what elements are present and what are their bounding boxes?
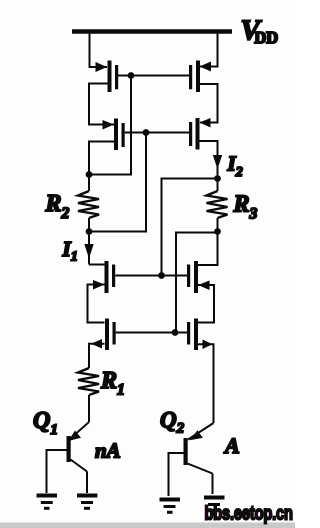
wire VDD to M2 source [200, 33, 218, 67]
wire M3 drain down [89, 142, 114, 175]
wire node A to R2 [88, 175, 90, 192]
wire node B to riser row2-gates [89, 133, 146, 232]
transistor Q2 (PNP, emitter area A) [184, 423, 214, 474]
wire gate bus row4 [116, 332, 187, 334]
VDD rail [72, 29, 232, 34]
wire M2 drain to M4 source [200, 84, 218, 123]
transistor M4 (second-row right PMOS) [189, 118, 211, 150]
wire M4 drain / I2 branch with current arrow [200, 141, 223, 179]
transistor M2 (top-right PMOS) [189, 61, 211, 93]
node C (R3 top) [214, 175, 221, 182]
transistor Q1 (PNP, emitter area nA) [67, 422, 90, 472]
wire Q1 collector to ground [86, 472, 88, 494]
wire I1 to M5 drain [89, 264, 105, 266]
ground (Q1 collector) [77, 496, 97, 509]
wire M6 source to M8 drain [198, 285, 214, 323]
wire riser row1-gates to node A [89, 76, 131, 175]
node row2 gate bus [143, 129, 150, 136]
node row3 gate bus [158, 272, 165, 279]
svg-text:bbs.eetop.cn: bbs.eetop.cn [205, 503, 293, 524]
wire M5 source to M7 drain [88, 285, 105, 323]
svg-text:R3: R3 [233, 192, 258, 223]
wire R3 to node D [217, 218, 219, 232]
ground (Q2 collector) [204, 498, 225, 511]
wire node D to M6 drain [198, 232, 218, 266]
node row4 gate bus [172, 329, 179, 336]
svg-text:Q2: Q2 [160, 408, 185, 437]
page edge band [0, 523, 295, 528]
wire gate bus row2 [125, 132, 189, 134]
wire Q1 base to ground [47, 450, 67, 493]
node D (R3 bottom) [214, 228, 221, 235]
svg-text:A: A [223, 433, 240, 458]
wire gate bus row3 [115, 275, 187, 277]
svg-text:Q1: Q1 [33, 408, 58, 438]
transistor M6 (third-row right NMOS) [187, 261, 210, 293]
resistor R3 [207, 191, 228, 218]
wire node C to R3 [217, 179, 219, 192]
transistor M8 (fourth-row right NMOS) [187, 319, 213, 351]
resistor R1 [78, 368, 99, 395]
ground (Q2 base) [160, 500, 181, 513]
wire node D to riser row4-gates [176, 233, 218, 333]
wire M1 drain to M3 source [89, 84, 114, 125]
svg-text:R2: R2 [45, 191, 70, 222]
wire Q2 collector to ground [212, 474, 214, 495]
node row1 gate bus [128, 72, 135, 79]
svg-text:I1: I1 [62, 237, 78, 265]
transistor M5 (third-row left NMOS) [93, 261, 115, 293]
wire I1 branch with current arrow [84, 232, 93, 265]
wire gate bus row1 [118, 75, 189, 77]
wire VDD to M1 source [90, 33, 108, 67]
transistor M3 (second-row left PMOS) [103, 119, 125, 151]
wire M8 source to Q2 emitter [198, 344, 214, 423]
wire M7 source to R1 [89, 344, 105, 368]
svg-text:VDD: VDD [241, 15, 279, 48]
ground (Q1 base) [37, 496, 58, 509]
svg-text:nA: nA [95, 438, 121, 462]
node B (R2 bottom, I1) [86, 228, 93, 235]
svg-text:I2: I2 [227, 152, 243, 181]
resistor R2 [78, 191, 99, 218]
wire Q2 base to ground [169, 453, 184, 496]
wire node C to riser row3-gates [162, 179, 218, 276]
wire R1 to Q1 emitter [88, 395, 90, 422]
transistor M7 (fourth-row left NMOS) [91, 319, 116, 351]
svg-text:R1: R1 [100, 368, 125, 399]
node A (R2 top, M3 drain) [86, 171, 93, 178]
wire R2 to node B [88, 218, 90, 232]
transistor M1 (top-left PMOS) [96, 61, 119, 93]
